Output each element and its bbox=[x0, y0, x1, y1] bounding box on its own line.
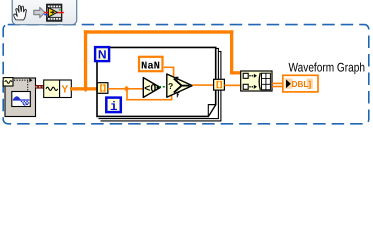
blue stub bbox=[44, 14, 49, 15]
2-D array wire (double orange) to terminal bbox=[272, 83, 283, 88]
wire: Select output to right tunnel bbox=[192, 84, 214, 86]
Build Array node bbox=[241, 71, 272, 91]
waveform wire (maroon) subVI to Get Y bbox=[36, 85, 44, 89]
for-loop stacked sheet 2 bbox=[99, 48, 219, 118]
dotted arrow bbox=[14, 80, 29, 91]
for-loop stacked sheet 3 (back) bbox=[101, 52, 221, 121]
hand (pan tool) icon bbox=[14, 6, 27, 20]
small wave box bbox=[3, 78, 13, 86]
left auto-index tunnel bbox=[97, 83, 108, 94]
svg-text:DBL]: DBL] bbox=[292, 79, 312, 89]
Get Waveform Components node (wave | Y) bbox=[44, 80, 72, 98]
wire: NaN to Select t input bbox=[164, 67, 175, 78]
NaN constant bbox=[139, 57, 163, 73]
red line through icon bbox=[44, 12, 64, 14]
i iteration terminal bbox=[106, 98, 121, 114]
arrow (position tool) icon bbox=[34, 7, 45, 17]
Less Than 0? node bbox=[143, 78, 160, 98]
toolbar box bbox=[12, 0, 77, 25]
svg-text:N: N bbox=[98, 48, 107, 62]
row 2: element input bbox=[243, 84, 248, 89]
blue sine: solid hump left, dithered hump right bbox=[13, 96, 21, 100]
wire: tunnel to Less-Than-0 (thin orange) bbox=[108, 88, 143, 90]
boolean wire (green dashed) bbox=[159, 86, 167, 88]
film-strip VI icon bbox=[44, 4, 64, 21]
svg-text:Waveform Graph: Waveform Graph bbox=[289, 60, 366, 74]
svg-text:i: i bbox=[110, 100, 118, 114]
selection marquee (dashed blue rounded rect) bbox=[3, 25, 369, 124]
array bracket and grid bbox=[259, 73, 260, 90]
Waveform Graph terminal bbox=[283, 75, 318, 92]
svg-text:<0: <0 bbox=[144, 82, 156, 94]
N count terminal bbox=[95, 47, 109, 62]
sprocket holes bbox=[48, 6, 61, 20]
wire: bypass up and over loop (thick orange) bbox=[84, 30, 241, 90]
row 1: element input bbox=[243, 73, 248, 78]
wire junction dot bbox=[82, 86, 88, 92]
label: Waveform Graph bbox=[289, 60, 366, 74]
inner waveform display box bbox=[12, 92, 31, 107]
wire: branch down to Select f input bbox=[126, 89, 172, 101]
svg-text:NaN: NaN bbox=[141, 61, 160, 73]
wire: Y output to loop tunnel (thick orange 1-D array) bbox=[70, 87, 98, 90]
svg-text:?: ? bbox=[168, 81, 173, 91]
for-loop frame (front sheet with folded corner) bbox=[97, 47, 216, 116]
yellow triangle with black arrow bbox=[48, 8, 57, 17]
wire: right tunnel to Build Array bbox=[224, 85, 241, 87]
right auto-index tunnel bbox=[214, 79, 225, 90]
subVI icon (waveform source) bbox=[3, 78, 35, 117]
Select node bbox=[167, 74, 193, 97]
junction dot inside loop bbox=[124, 86, 130, 92]
svg-text:Y: Y bbox=[61, 84, 68, 96]
